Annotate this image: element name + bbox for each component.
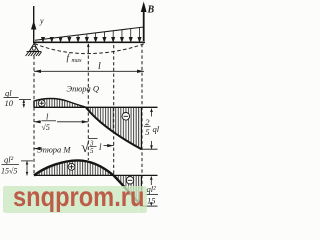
- svg-text:ql²: ql²: [4, 155, 14, 165]
- svg-text:l: l: [98, 61, 101, 72]
- svg-text:√5: √5: [42, 123, 50, 132]
- svg-text:f: f: [67, 53, 71, 64]
- svg-text:10: 10: [5, 98, 14, 108]
- svg-text:15√5: 15√5: [1, 167, 17, 176]
- svg-text:5: 5: [145, 127, 149, 137]
- svg-text:ql²: ql²: [147, 184, 157, 194]
- svg-text:2: 2: [145, 117, 150, 127]
- svg-text:Эпюра Q: Эпюра Q: [67, 84, 100, 94]
- svg-text:l: l: [46, 112, 49, 122]
- svg-text:Эпюра М: Эпюра М: [37, 145, 71, 155]
- svg-text:5: 5: [90, 147, 94, 155]
- svg-text:max: max: [72, 58, 82, 64]
- svg-text:ql: ql: [153, 124, 160, 134]
- svg-text:B: B: [147, 5, 155, 16]
- svg-text:ql: ql: [5, 88, 12, 98]
- svg-text:у: у: [39, 17, 44, 26]
- svg-text:l: l: [99, 142, 102, 152]
- svg-text:√: √: [81, 140, 90, 156]
